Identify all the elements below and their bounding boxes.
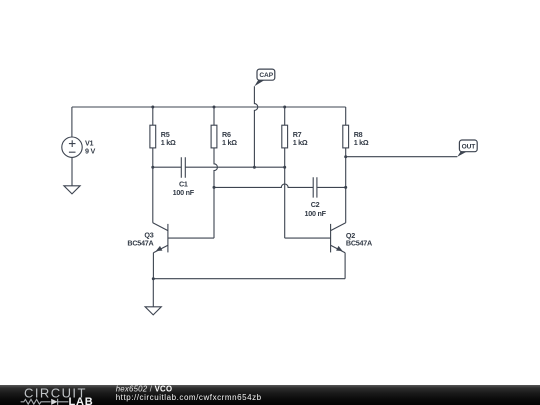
- junction top of R7: [283, 106, 286, 109]
- ground below V1: [64, 186, 80, 194]
- junction top of R5: [151, 106, 154, 109]
- wire ground lead: [152, 279, 154, 307]
- label R6 1 kOhm: [222, 130, 237, 147]
- svg-text:9 V: 9 V: [85, 147, 95, 156]
- wire emitter rail: [153, 278, 345, 280]
- wire C1 left segment: [153, 166, 181, 168]
- ground below Q3: [145, 307, 161, 315]
- svg-text:BC547A: BC547A: [127, 238, 153, 247]
- resistor R7: [282, 107, 288, 148]
- junction C2 wire at R6 line: [213, 186, 216, 189]
- svg-text:C2: C2: [311, 200, 320, 209]
- voltage source V1: [62, 137, 82, 157]
- footer title text: [116, 384, 262, 402]
- transistor Q2: [285, 223, 346, 253]
- label Q2 BC547A: [346, 231, 372, 248]
- svg-text:LAB: LAB: [69, 395, 94, 405]
- wire V1 positive lead: [71, 107, 73, 137]
- junction C2 wire at R8 line: [344, 186, 347, 189]
- wire top rail: [72, 106, 346, 108]
- resistor R8: [343, 107, 349, 148]
- junction CAP on C1 wire: [253, 166, 256, 169]
- svg-text:OUT: OUT: [462, 144, 476, 151]
- svg-text:1 kΩ: 1 kΩ: [222, 138, 237, 147]
- junction C1 wire at R5 bottom: [151, 166, 154, 169]
- wire Q3 collector: [152, 167, 154, 223]
- label Q3 BC547A: [127, 231, 153, 248]
- wire Q3 emitter down: [152, 253, 154, 279]
- junction top of R6: [213, 106, 216, 109]
- capacitor C2: [313, 177, 317, 197]
- wire OUT lead: [346, 156, 458, 158]
- wire Q2 emitter down: [344, 253, 346, 279]
- svg-text:1 kΩ: 1 kΩ: [354, 138, 369, 147]
- resistor R6: [211, 107, 217, 148]
- node flag OUT: [457, 140, 477, 157]
- wire R5 bottom lead: [152, 148, 154, 167]
- wire V1 negative lead: [71, 157, 73, 185]
- label R5 1 kOhm: [161, 130, 176, 147]
- wire C1 right segment: [186, 166, 285, 168]
- svg-text:CAP: CAP: [259, 72, 273, 79]
- label C1 100 nF: [173, 180, 195, 198]
- wire C2 right segment: [317, 186, 345, 188]
- wire R7 bottom lead to Q2 base: [284, 148, 286, 238]
- node flag CAP: [254, 69, 274, 86]
- svg-text:100 nF: 100 nF: [304, 209, 326, 218]
- label C2 100 nF: [304, 200, 326, 218]
- wire C2 left segment with hop over R7 line: [214, 184, 313, 187]
- wire R8 bottom lead to Q2 collector: [345, 148, 347, 223]
- junction OUT takeoff on R8 line: [344, 155, 347, 158]
- svg-text:1 kΩ: 1 kΩ: [161, 138, 176, 147]
- label R7 1 kOhm: [293, 130, 308, 147]
- svg-text:BC547A: BC547A: [346, 239, 372, 248]
- wire CAP lead with hop over top rail: [254, 86, 257, 167]
- label V1 9 V: [85, 138, 95, 155]
- junction emitter rail at ground: [152, 277, 155, 280]
- footer bar: [0, 385, 540, 405]
- capacitor C1: [181, 157, 185, 177]
- svg-text:C1: C1: [179, 180, 188, 189]
- CircuitLab logo: [21, 385, 94, 405]
- label R8 1 kOhm: [354, 130, 369, 147]
- junction C1 wire at R7 line: [283, 166, 286, 169]
- svg-text:100 nF: 100 nF: [173, 188, 195, 197]
- svg-text:http://circuitlab.com/cwfxcrmn: http://circuitlab.com/cwfxcrmn654zb: [116, 393, 262, 402]
- transistor Q3: [153, 223, 214, 253]
- svg-text:1 kΩ: 1 kΩ: [293, 138, 308, 147]
- resistor R5: [150, 107, 156, 148]
- wire R6 bottom lead with hop over C1 wire: [214, 148, 217, 238]
